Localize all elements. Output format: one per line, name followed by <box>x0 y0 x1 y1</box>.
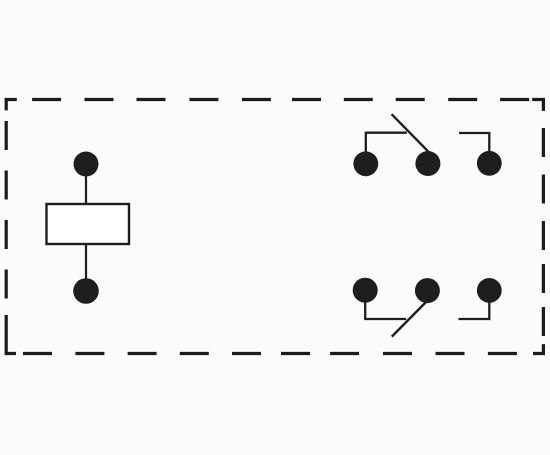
pin 5 (pole A normally-open contact) <box>477 151 502 176</box>
relay enclosure K1 (dashed outline) <box>6 100 543 354</box>
pin 1 (coil terminal, top) <box>74 152 99 177</box>
wire: pin 1 to coil <box>85 170 87 205</box>
pin 8 (pole B normally-open contact) <box>477 278 502 303</box>
pin 4 (pole A common) <box>415 151 440 176</box>
wire: coil to pin 2 <box>85 244 87 282</box>
pin 2 (coil terminal, bottom) <box>73 278 99 304</box>
pin 3 (pole A normally-closed contact) <box>353 151 378 176</box>
pin 6 (pole B normally-closed contact) <box>353 278 378 303</box>
pin 7 (pole B common) <box>415 278 440 303</box>
wire: pin 3 up and right to armature <box>366 133 407 163</box>
wire: pin 6 down and right to armature <box>365 291 406 319</box>
armature (pole A movable contact) <box>392 114 430 153</box>
wire: pin 5 up and left (normally-open contact) <box>459 133 489 162</box>
wire: pin 8 down and left (normally-open contact) <box>459 290 490 319</box>
armature (pole B movable contact) <box>392 299 429 337</box>
relay coil <box>47 204 130 244</box>
